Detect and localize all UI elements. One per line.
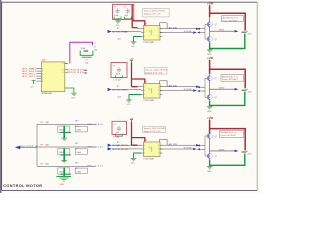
svg-text:8: 8 xyxy=(158,36,159,38)
svg-text:OUT2: OUT2 xyxy=(219,88,225,90)
svg-text:1: 1 xyxy=(144,149,145,151)
svg-text:+VM: +VM xyxy=(207,2,214,6)
svg-text:MOT_FB1 2: MOT_FB1 2 xyxy=(22,76,35,78)
svg-text:Vadj=1.27V +5%: Vadj=1.27V +5% xyxy=(144,131,161,133)
svg-text:1: 1 xyxy=(144,86,145,88)
svg-text:MOTOR_DIR: MOTOR_DIR xyxy=(112,89,125,91)
svg-text:C?: C? xyxy=(75,168,77,170)
svg-text:8: 8 xyxy=(158,153,159,155)
svg-text:1: 1 xyxy=(144,28,145,30)
svg-text:Vadj=1.27V +5%: Vadj=1.27V +5% xyxy=(145,72,162,74)
svg-text:C?: C? xyxy=(94,46,96,48)
svg-text:Q?: Q? xyxy=(215,156,217,158)
svg-text:CONTROL MOTOR: CONTROL MOTOR xyxy=(3,183,42,188)
svg-text:A/D 15W: A/D 15W xyxy=(169,84,177,87)
svg-text:9: 9 xyxy=(62,72,63,74)
svg-text:MOTOR_A 1Y4: MOTOR_A 1Y4 xyxy=(67,68,85,71)
svg-text:GND: GND xyxy=(60,184,65,186)
svg-text:1: 1 xyxy=(144,153,145,155)
svg-text:Q?: Q? xyxy=(215,39,217,41)
svg-text:VO 15W: VO 15W xyxy=(184,31,192,33)
svg-text:MOTOR_B 4Y4: MOTOR_B 4Y4 xyxy=(67,72,85,74)
svg-text:+VM: +VM xyxy=(207,116,214,120)
svg-text:10K/4: 10K/4 xyxy=(59,171,64,173)
svg-text:C?: C? xyxy=(113,124,115,126)
svg-text:Power MOSFET: Power MOSFET xyxy=(221,134,237,137)
svg-text:+12V: +12V xyxy=(247,92,252,94)
svg-text:8: 8 xyxy=(158,86,159,88)
svg-text:1: 1 xyxy=(144,90,145,92)
svg-text:C?: C? xyxy=(85,60,87,62)
svg-text:GND: GND xyxy=(115,25,120,27)
svg-text:Vout=1.25V(1+R2/R1: Vout=1.25V(1+R2/R1 xyxy=(145,69,167,72)
svg-text:R?: R? xyxy=(117,146,119,148)
svg-text:1: 1 xyxy=(144,94,145,96)
svg-text:1: 1 xyxy=(144,32,145,34)
svg-text:R?: R? xyxy=(117,142,119,144)
svg-text:PC817SMD: PC817SMD xyxy=(144,100,155,102)
svg-text:PC817SMD: PC817SMD xyxy=(144,42,155,44)
svg-text:ENC_B 4x4: ENC_B 4x4 xyxy=(88,146,104,148)
svg-text:ENC_A 4x4: ENC_A 4x4 xyxy=(88,123,104,126)
svg-text:104: 104 xyxy=(116,132,119,134)
svg-text:8: 8 xyxy=(158,94,159,96)
svg-text:GND: GND xyxy=(126,104,131,106)
svg-text:R?: R? xyxy=(117,28,119,30)
svg-text:CapN: CapN xyxy=(76,171,81,173)
svg-text:CapN: CapN xyxy=(76,130,81,132)
svg-text:Vadj=1.27V +5%: Vadj=1.27V +5% xyxy=(144,14,161,16)
svg-text:Vout=1.25V(1+R2/R1: Vout=1.25V(1+R2/R1 xyxy=(144,127,166,130)
svg-text:GND: GND xyxy=(207,171,212,173)
svg-text:Power MOSFET: Power MOSFET xyxy=(222,78,238,81)
svg-text:10K/4: 10K/4 xyxy=(59,152,64,154)
svg-text:Q?: Q? xyxy=(215,136,217,138)
svg-text:C? 104: C? 104 xyxy=(113,137,119,139)
svg-text:1: 1 xyxy=(144,36,145,38)
svg-text:GND: GND xyxy=(131,46,136,48)
svg-text:VO 15W: VO 15W xyxy=(184,89,192,91)
svg-text:8: 8 xyxy=(158,32,159,34)
svg-text:1: 1 xyxy=(144,145,145,147)
svg-text:C?: C? xyxy=(75,149,77,151)
svg-text:AO4606 N+P ch: AO4606 N+P ch xyxy=(223,17,239,20)
svg-text:Power MOSFET: Power MOSFET xyxy=(223,19,239,22)
svg-text:MOTOR_BK: MOTOR_BK xyxy=(112,149,124,151)
svg-text:9: 9 xyxy=(62,63,63,65)
svg-text:OUT3: OUT3 xyxy=(219,149,225,151)
svg-text:104: 104 xyxy=(118,38,121,40)
svg-text:+VM: +VM xyxy=(207,56,214,60)
svg-text:VO 15W: VO 15W xyxy=(184,148,192,150)
svg-text:CapN: CapN xyxy=(76,152,81,154)
svg-text:8: 8 xyxy=(158,28,159,30)
svg-text:OUT1: OUT1 xyxy=(219,30,225,32)
svg-text:A/D 15W: A/D 15W xyxy=(169,143,177,146)
svg-text:C?: C? xyxy=(124,7,126,9)
svg-text:ENC_Z 4x4: ENC_Z 4x4 xyxy=(88,166,104,168)
svg-text:Vout=1.25V(1+R2/R1: Vout=1.25V(1+R2/R1 xyxy=(144,10,166,13)
svg-text:C?: C? xyxy=(113,66,115,68)
svg-text:8: 8 xyxy=(158,149,159,151)
svg-text:Q?: Q? xyxy=(215,97,217,99)
svg-text:8: 8 xyxy=(158,145,159,147)
svg-text:AO4606 N+P ch: AO4606 N+P ch xyxy=(222,75,238,78)
svg-text:+12V: +12V xyxy=(247,154,252,156)
svg-text:PC817SMD: PC817SMD xyxy=(144,159,155,161)
svg-text:8: 8 xyxy=(158,90,159,92)
svg-text:Q?: Q? xyxy=(215,24,217,26)
svg-text:104: 104 xyxy=(85,62,88,64)
svg-text:GND: GND xyxy=(131,163,136,165)
svg-text:GND: GND xyxy=(71,98,76,100)
svg-text:A/D 15W: A/D 15W xyxy=(169,26,177,29)
svg-text:ATMEGA8: ATMEGA8 xyxy=(42,92,53,95)
svg-text:Q?: Q? xyxy=(215,78,217,80)
svg-text:C? 0.1uF: C? 0.1uF xyxy=(113,80,122,82)
svg-text:C?: C? xyxy=(114,7,116,9)
svg-text:R?: R? xyxy=(117,86,119,88)
svg-text:+12V: +12V xyxy=(247,34,252,36)
svg-text:AO4606 N+P ch: AO4606 N+P ch xyxy=(221,131,237,134)
svg-text:C?: C? xyxy=(75,126,77,128)
svg-text:104: 104 xyxy=(125,15,128,17)
svg-text:6: 6 xyxy=(42,81,43,83)
svg-text:104: 104 xyxy=(118,96,121,98)
svg-text:GND: GND xyxy=(207,111,212,113)
svg-text:10K/4: 10K/4 xyxy=(59,130,64,132)
